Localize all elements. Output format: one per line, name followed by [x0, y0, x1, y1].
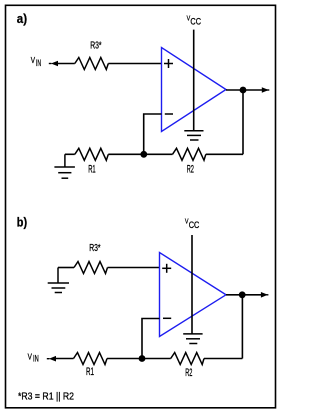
resistor R3 (b)	[74, 262, 108, 274]
resistor R1 (a)	[75, 148, 109, 160]
pin + (b)	[162, 264, 171, 273]
output arrow (a)	[262, 87, 270, 93]
pin + (a)	[164, 59, 173, 68]
wire ground to R3 (b)	[58, 267, 74, 269]
svg-text:V: V	[31, 55, 36, 65]
wire node to R2 (b)	[142, 358, 171, 360]
node junction (a)	[140, 151, 147, 158]
resistor R2 (b)	[171, 353, 204, 365]
wire output branch vertical (b)	[241, 295, 243, 359]
wire R2 to output branch (a)	[206, 153, 243, 155]
input arrow (b)	[47, 356, 56, 362]
wire VCC (a)	[193, 30, 195, 131]
ground left (b)	[48, 268, 69, 293]
svg-text:R2: R2	[185, 367, 192, 379]
label VCC (a)	[187, 13, 201, 27]
label VCC (b)	[185, 217, 199, 231]
svg-text:a): a)	[17, 11, 27, 26]
wire R1 to node (b)	[107, 358, 142, 360]
svg-text:CC: CC	[189, 220, 200, 231]
svg-text:*R3 = R1 || R2: *R3 = R1 || R2	[18, 392, 74, 403]
wire VIN to R1 (b)	[56, 358, 74, 360]
ground under op-amp (a)	[184, 131, 203, 140]
svg-text:R1: R1	[86, 366, 94, 378]
ground under op-amp (b)	[183, 334, 202, 344]
op-amp U1 (a)	[162, 48, 227, 132]
wire - input feedback (a)	[144, 114, 162, 154]
resistor R2 (a)	[173, 148, 206, 160]
output node (b)	[239, 291, 246, 298]
pin - (a)	[165, 113, 173, 115]
wire R1 to node (a)	[108, 153, 144, 155]
svg-text:R3*: R3*	[90, 40, 101, 52]
wire R3 to op-amp + input (b)	[108, 267, 160, 269]
wire op-amp output (b)	[226, 294, 262, 296]
svg-text:IN: IN	[36, 58, 41, 69]
wire node to R2 (a)	[144, 153, 173, 155]
resistor R3 (a)	[75, 58, 109, 70]
node VIN (a)	[31, 55, 41, 69]
svg-text:R1: R1	[88, 164, 96, 176]
wire output branch vertical (a)	[242, 90, 244, 154]
wire VIN to R3 (a)	[58, 63, 75, 65]
wire VCC (b)	[191, 235, 193, 334]
wire R2 to output branch (b)	[204, 358, 242, 360]
svg-text:IN: IN	[33, 353, 39, 364]
wire R3 to op-amp + input (a)	[108, 63, 161, 65]
pin - (b)	[163, 317, 171, 319]
output arrow (b)	[261, 292, 269, 298]
resistor R1 (b)	[74, 353, 108, 365]
svg-text:V: V	[28, 351, 33, 361]
node junction (b)	[139, 355, 146, 362]
output node (a)	[240, 87, 247, 94]
svg-text:CC: CC	[190, 17, 201, 28]
ground left (a)	[54, 154, 75, 178]
svg-text:R2: R2	[187, 164, 194, 176]
wire op-amp output (a)	[226, 89, 262, 91]
svg-text:R3*: R3*	[89, 242, 100, 254]
op-amp U2 (b)	[160, 253, 227, 337]
svg-text:b): b)	[17, 215, 27, 230]
wire ground to R1 (a)	[65, 153, 75, 155]
wire - input feedback (b)	[142, 319, 160, 359]
node VIN (b)	[28, 351, 39, 364]
input arrow (a)	[49, 61, 58, 67]
